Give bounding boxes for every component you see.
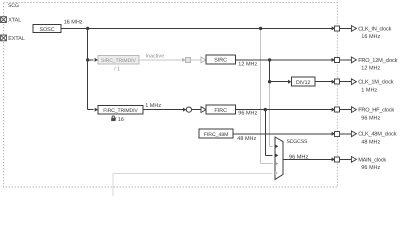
svg-text:SCGCSS: SCGCSS (287, 139, 308, 145)
svg-text:16 MHz: 16 MHz (64, 20, 83, 26)
svg-text:1 MHz: 1 MHz (361, 88, 377, 94)
svg-text:SCG: SCG (8, 3, 19, 9)
svg-text:FIRC: FIRC (214, 108, 227, 114)
svg-text:SOSC: SOSC (39, 27, 54, 33)
svg-text:96 MHz: 96 MHz (361, 165, 380, 171)
svg-text:CLK_48M_clock: CLK_48M_clock (358, 131, 397, 138)
svg-text:96 MHz: 96 MHz (361, 115, 380, 121)
svg-text:/ 16: / 16 (115, 117, 124, 123)
svg-text:48 MHz: 48 MHz (237, 136, 256, 142)
svg-text:CLK_IN_clock: CLK_IN_clock (358, 25, 391, 32)
svg-text:EXTAL: EXTAL (8, 36, 25, 42)
svg-text:SIRC_TRIMDIV: SIRC_TRIMDIV (101, 58, 136, 64)
svg-text:12 MHz: 12 MHz (361, 66, 380, 72)
svg-text:FIRC_48M: FIRC_48M (204, 132, 229, 138)
svg-text:96 MHz: 96 MHz (238, 111, 257, 117)
svg-text:12 MHz: 12 MHz (238, 62, 257, 68)
svg-text:XTAL: XTAL (8, 18, 21, 24)
svg-text:Inactive: Inactive (146, 54, 165, 60)
svg-text:MAIN_clock: MAIN_clock (358, 156, 386, 163)
svg-text:FRO_HF_clock: FRO_HF_clock (358, 107, 394, 114)
svg-text:CLK_1M_clock: CLK_1M_clock (358, 79, 394, 86)
svg-text:SIRC: SIRC (214, 58, 227, 64)
svg-text:FIRC_TRIMDIV: FIRC_TRIMDIV (103, 108, 138, 114)
svg-text:/ 1: / 1 (114, 67, 120, 73)
svg-text:DIV12: DIV12 (296, 80, 311, 86)
svg-text:FRO_12M_clock: FRO_12M_clock (358, 57, 397, 64)
svg-text:48 MHz: 48 MHz (361, 140, 380, 146)
svg-text:16 MHz: 16 MHz (361, 34, 380, 40)
svg-text:1 MHz: 1 MHz (145, 103, 161, 109)
